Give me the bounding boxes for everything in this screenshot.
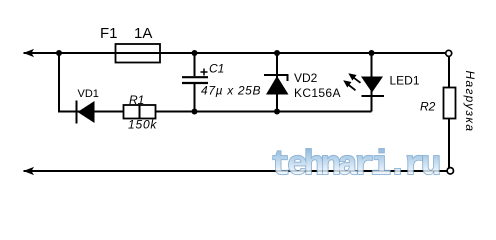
svg-text:tehnari.ru: tehnari.ru (271, 147, 439, 185)
svg-text:VD1: VD1 (78, 88, 99, 100)
svg-text:KC156A: KC156A (294, 86, 341, 100)
svg-text:47µ x 25В: 47µ x 25В (201, 84, 261, 98)
svg-text:VD2: VD2 (294, 71, 318, 85)
svg-text:R2: R2 (420, 100, 436, 114)
svg-text:F1: F1 (100, 25, 118, 42)
svg-text:150k: 150k (128, 118, 157, 132)
svg-text:Нагрузка: Нагрузка (463, 71, 477, 133)
svg-text:LED1: LED1 (390, 74, 420, 88)
svg-text:R1: R1 (129, 93, 144, 107)
svg-text:1A: 1A (134, 25, 152, 42)
svg-text:C1: C1 (209, 62, 224, 76)
